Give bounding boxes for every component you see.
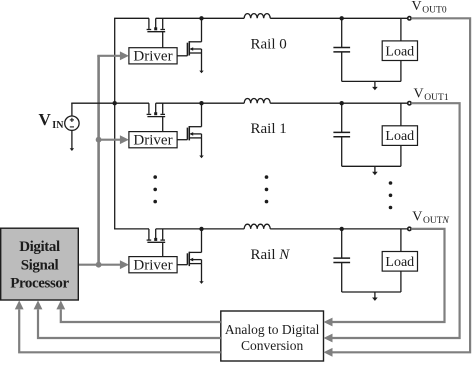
node: rail 0 switch node	[199, 16, 203, 20]
arrow: ADC input from V_OUTN (top)	[324, 318, 333, 327]
node: Vin bus / Rail 1 junction	[113, 101, 117, 105]
node: rail 1 output node (cap tap)	[340, 101, 344, 105]
transistor Q0L low-side MOSFET	[187, 18, 201, 56]
wire: ADC to DSP digital line 1 (gray)	[61, 310, 221, 323]
svg-text:Rail 1: Rail 1	[251, 121, 287, 137]
wire: V_OUT1 sense line (gray) to ADC	[333, 103, 460, 338]
wire: Q0H gate to driver	[162, 32, 164, 48]
svg-text:Driver: Driver	[133, 49, 172, 65]
svg-text:V: V	[412, 0, 422, 14]
svg-text:OUT1: OUT1	[424, 93, 449, 103]
wire: rail 1 input segment (bus to high-side FET)	[114, 102, 149, 104]
arrow: driver input (gray) rail 1	[99, 139, 121, 141]
wire: output node to V_OUT terminal	[342, 17, 408, 19]
wire: rail 1 ground return (cap to load)	[342, 165, 401, 167]
node: continuation dots column 2 (rail labels)	[265, 175, 269, 179]
ground: QNL source	[199, 281, 203, 284]
inductor L1	[244, 98, 270, 103]
driver (rail 1)	[129, 132, 177, 148]
node: V_OUTN terminal	[408, 227, 411, 230]
wire: ADC to DSP digital line 2 (gray)	[38, 310, 221, 339]
ground: rail 1 return	[374, 166, 376, 173]
node: V_OUT0 terminal	[408, 17, 411, 20]
wire: rail 0 input segment (bus to high-side FET)	[114, 17, 149, 19]
svg-text:V: V	[412, 210, 422, 225]
arrow: into DSP bottom (line 3)	[15, 300, 24, 309]
load (rail N)	[382, 252, 417, 272]
wire: ADC to DSP digital line 3 (gray)	[19, 310, 221, 353]
svg-text:OUTN: OUTN	[423, 216, 450, 226]
wire: driver output to QNL gate	[177, 264, 187, 266]
wire: switch node to inductor	[202, 17, 245, 19]
svg-text:Driver: Driver	[133, 133, 172, 149]
capacitor C1	[333, 103, 350, 166]
wire: DSP control bus (vertical gray, x=98.6)	[97, 56, 100, 265]
wire: Q1L source to ground	[201, 138, 203, 156]
arrow: into DSP bottom (line 1)	[56, 300, 65, 309]
svg-text:V: V	[39, 110, 52, 129]
voltage source V_IN	[65, 116, 79, 130]
wire: load top lead	[400, 18, 402, 41]
arrow: ADC input from V_OUT1 (middle)	[324, 334, 333, 343]
svg-text:IN: IN	[52, 120, 64, 131]
svg-text:Load: Load	[385, 44, 414, 59]
wire: switch node to inductor	[202, 228, 245, 230]
wire: Vin power bus (vertical, x=114.7)	[114, 18, 116, 229]
svg-text:Rail N: Rail N	[251, 247, 291, 263]
node: rail N switch node	[199, 227, 203, 231]
wire: rail N switch node segment	[156, 228, 202, 230]
transistor QNL low-side MOSFET	[187, 229, 201, 266]
node: control bus / rail 1 driver tap (gray)	[96, 137, 102, 143]
transistor QNH high-side MOSFET	[147, 229, 166, 242]
svg-text:V: V	[414, 87, 424, 102]
svg-text:Signal: Signal	[21, 257, 59, 273]
wire: switch node to inductor	[202, 102, 245, 104]
wire: load bottom lead	[400, 145, 402, 166]
svg-text:Rail 0: Rail 0	[251, 36, 287, 52]
transistor Q0H high-side MOSFET	[147, 18, 166, 31]
capacitor CN	[333, 229, 350, 292]
load (rail 1)	[382, 126, 417, 146]
wire: Q1H gate to driver	[162, 117, 164, 132]
wire: rail 0 ground return (cap to load)	[342, 80, 401, 82]
node: continuation dots column 3 (loads)	[389, 181, 393, 185]
wire: rail 1 switch node segment	[156, 102, 202, 104]
node: control bus / DSP output tap (gray)	[96, 262, 102, 268]
node: continuation dots column 1 (drivers)	[153, 175, 157, 179]
wire: load bottom lead	[400, 61, 402, 82]
ADC block: Analog to Digital Conversion	[221, 311, 324, 361]
wire: V_IN to bus (part of Rail 1 input line)	[71, 102, 114, 104]
wire: QNL source to ground	[201, 264, 203, 282]
wire: rail N input segment (bus to high-side FET)	[114, 228, 149, 230]
svg-text:Digital: Digital	[19, 239, 60, 255]
wire: inductor to output node	[270, 102, 342, 104]
capacitor C0	[333, 18, 350, 81]
svg-text:Driver: Driver	[133, 258, 172, 274]
ground: rail 0 return	[374, 81, 376, 88]
wire: rail 0 switch node segment	[156, 17, 202, 19]
DSP block: Digital Signal Processor	[1, 228, 79, 300]
svg-text:Load: Load	[385, 129, 414, 144]
wire: QNH gate to driver	[162, 242, 164, 256]
wire: V_IN positive lead up to Rail 1 line	[71, 103, 73, 116]
wire: inductor to output node	[270, 17, 342, 19]
arrow: into DSP bottom (line 2)	[34, 300, 43, 309]
ground: V_IN return	[70, 148, 74, 151]
transistor Q1H high-side MOSFET	[147, 103, 166, 116]
load (rail 0)	[382, 41, 417, 61]
node: rail 0 output node (cap tap)	[340, 16, 344, 20]
ground: Q1L source	[199, 156, 203, 159]
svg-text:Load: Load	[385, 255, 414, 270]
wire: inductor to output node	[270, 228, 342, 230]
wire: driver output to Q1L gate	[177, 139, 187, 141]
wire: rail N ground return (cap to load)	[342, 291, 401, 293]
svg-text:Processor: Processor	[10, 275, 69, 291]
wire: output node to V_OUT terminal	[342, 228, 408, 230]
wire: driver output to Q0L gate	[177, 55, 187, 57]
svg-text:Conversion: Conversion	[241, 338, 303, 353]
svg-text:Analog to Digital: Analog to Digital	[225, 322, 320, 337]
driver (rail 0)	[129, 48, 177, 64]
ground: Q0L source	[199, 71, 203, 74]
wire: load top lead	[400, 103, 402, 126]
wire: load bottom lead	[400, 271, 402, 292]
inductor LN	[244, 224, 270, 229]
wire: V_OUTN sense line (gray) to ADC	[333, 229, 445, 322]
transistor Q1L low-side MOSFET	[187, 103, 201, 140]
arrow: driver input (gray) rail N	[78, 264, 120, 266]
wire: V_IN negative lead down	[71, 130, 73, 148]
ground: rail N return	[374, 292, 376, 299]
driver (rail N)	[129, 257, 177, 273]
wire: output node to V_OUT terminal	[342, 102, 408, 104]
node: V_OUT1 terminal	[408, 102, 411, 105]
wire: Q0L source to ground	[201, 53, 203, 71]
arrow: driver input (gray) rail 0	[97, 55, 120, 57]
node: rail 1 switch node	[199, 101, 203, 105]
arrow: ADC input from V_OUT0 (bottom)	[324, 348, 333, 357]
inductor L0	[244, 14, 270, 19]
wire: load top lead	[400, 229, 402, 252]
wire: V_OUT0 sense line (gray) to ADC	[333, 18, 471, 352]
svg-text:OUT0: OUT0	[422, 6, 447, 16]
node: rail N output node (cap tap)	[340, 227, 344, 231]
